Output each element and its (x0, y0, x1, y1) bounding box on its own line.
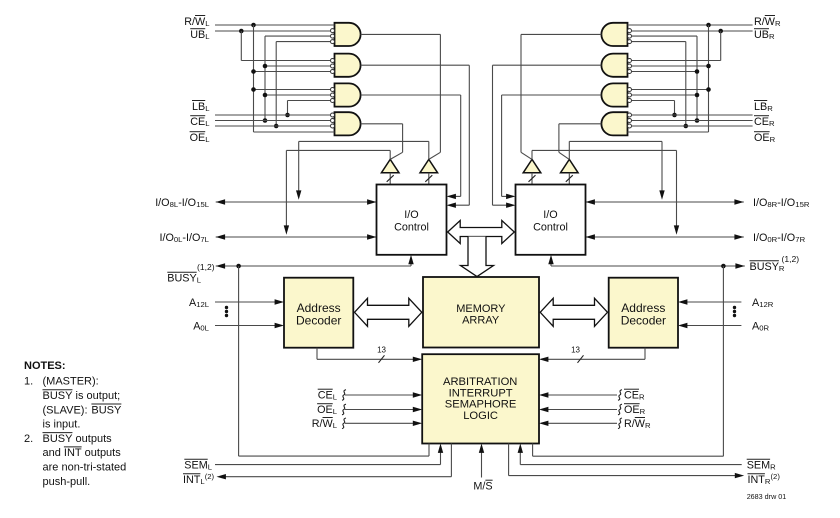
svg-text:are non-tri-stated: are non-tri-stated (43, 462, 127, 474)
svg-text:SEMAPHORE: SEMAPHORE (445, 399, 517, 411)
svg-text:M/S: M/S (473, 481, 492, 493)
svg-text:Control: Control (394, 222, 429, 234)
svg-text:ARBITRATION: ARBITRATION (443, 376, 517, 388)
svg-text:INTERRUPT: INTERRUPT (449, 387, 513, 399)
svg-text:(MASTER):: (MASTER): (43, 376, 99, 388)
svg-text:NOTES:: NOTES: (24, 360, 66, 372)
svg-text:MEMORY: MEMORY (456, 303, 506, 315)
svg-text:BUSY outputs: BUSY outputs (43, 433, 113, 445)
svg-text:13: 13 (571, 346, 580, 355)
svg-text:2.: 2. (24, 433, 33, 445)
svg-text:(SLAVE): BUSY: (SLAVE): BUSY (43, 404, 123, 416)
svg-text:1.: 1. (24, 376, 33, 388)
svg-text:LOGIC: LOGIC (463, 410, 498, 422)
svg-text:ARRAY: ARRAY (462, 315, 500, 327)
svg-text:13: 13 (377, 346, 386, 355)
svg-text:Control: Control (533, 222, 568, 234)
svg-text:I/O: I/O (543, 209, 557, 221)
svg-text:and INT outputs: and INT outputs (43, 447, 122, 459)
svg-text:I/O: I/O (404, 209, 418, 221)
svg-text:2683 drw 01: 2683 drw 01 (747, 492, 787, 501)
svg-text:Decoder: Decoder (296, 314, 341, 328)
svg-text:(1,2): (1,2) (197, 262, 215, 272)
svg-text:BUSYL: BUSYL (167, 273, 201, 285)
svg-text:is input.: is input. (43, 419, 81, 431)
svg-text:push-pull.: push-pull. (43, 476, 91, 488)
svg-text:BUSY is output;: BUSY is output; (43, 390, 121, 402)
svg-text:(1,2): (1,2) (782, 254, 800, 264)
svg-text:Decoder: Decoder (621, 314, 666, 328)
